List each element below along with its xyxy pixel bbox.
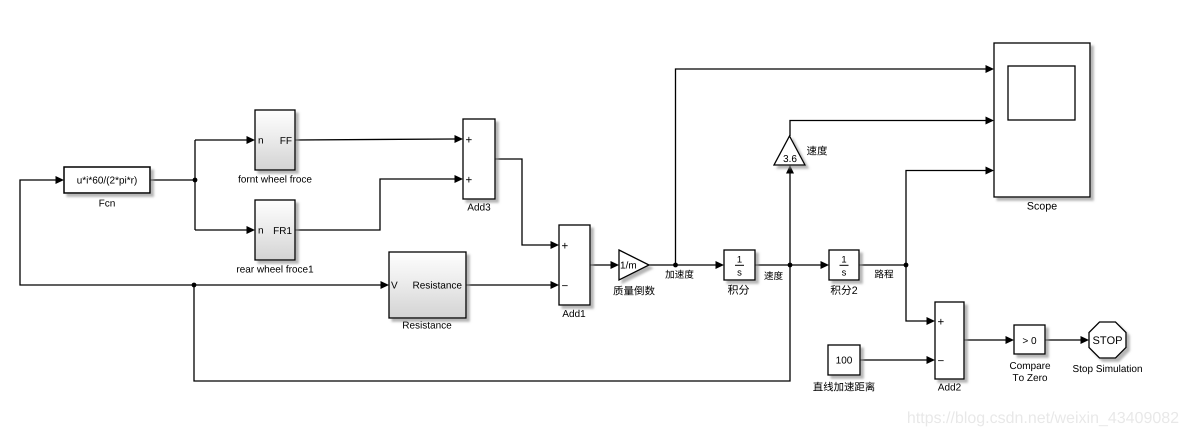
- subsystem Resistance: [389, 252, 466, 318]
- wire: constant 100 to Add2 minus input: [860, 359, 927, 361]
- wire: FF output to Add3 input 1: [295, 139, 455, 140]
- wire: Fcn output to branch junction: [150, 179, 195, 181]
- gain 3.6 (speed unit conversion): [774, 136, 805, 165]
- wire: FR1 output to Add3 input 2: [295, 179, 455, 230]
- wire: Add3 output to Add1 plus input: [495, 159, 551, 245]
- sum block Add1: [559, 225, 590, 305]
- wire: gain 1/m output to integrator 1 (acceleration): [649, 264, 716, 266]
- wire: Add2 output to Compare To Zero: [964, 339, 1006, 341]
- signal label 速度 at gain 3.6: [807, 146, 827, 156]
- wire: branch vertical to FF and FR1 inputs: [194, 140, 196, 230]
- node: Fcn output branch junction: [193, 178, 198, 183]
- wire: distance down to Add2 plus input: [906, 265, 927, 321]
- watermark: [908, 411, 1178, 426]
- subsystem FR1 rear wheel froce1: [255, 200, 295, 260]
- sum block Add2: [935, 302, 964, 379]
- node: feedback junction: [192, 283, 197, 288]
- wire: feedback right to Resistance V input: [194, 284, 381, 286]
- label 质量倒数: [613, 286, 654, 296]
- scope block Scope: [994, 43, 1090, 197]
- subsystem FF fornt wheel froce: [255, 110, 295, 170]
- node: acceleration junction: [673, 263, 678, 268]
- wire: integrator 2 output (distance): [859, 264, 906, 266]
- wire: distance up to Scope input 3: [906, 171, 986, 266]
- wire: integrator 1 output to integrator 2 (velocity): [755, 264, 821, 266]
- integrator 积分 (1/s): [724, 250, 755, 280]
- signal label 加速度 (acceleration): [665, 270, 693, 279]
- constant 100 直线加速距离: [828, 345, 860, 375]
- wire: Add1 output to gain 1/m: [590, 264, 611, 266]
- node: velocity junction: [788, 263, 793, 268]
- block Fcn u*i*60/(2*pi*r): [64, 167, 150, 193]
- wire: velocity feedback down and left: [194, 265, 790, 381]
- wire: Compare To Zero output to Stop Simulation: [1045, 339, 1081, 341]
- wire: acceleration up to Scope input 1: [676, 69, 987, 265]
- wire: feedback left to Fcn input: [20, 180, 194, 285]
- stop block Stop Simulation (octagon): [1089, 322, 1126, 358]
- wire: gain 3.6 output to Scope input 2: [790, 121, 986, 137]
- gain 1/m (mass inverse): [619, 250, 649, 280]
- wire: velocity up to gain 3.6 input: [789, 173, 791, 265]
- sum block Add3: [463, 119, 495, 199]
- node: distance junction: [904, 263, 909, 268]
- integrator 积分2 (1/s): [829, 250, 859, 280]
- compare block Compare To Zero: [1014, 325, 1045, 354]
- wire: Resistance output to Add1 minus input: [466, 284, 551, 286]
- label 直线加速距离: [813, 382, 874, 392]
- signal label 路程 (distance): [875, 269, 893, 278]
- signal label 速度 (velocity): [764, 271, 782, 280]
